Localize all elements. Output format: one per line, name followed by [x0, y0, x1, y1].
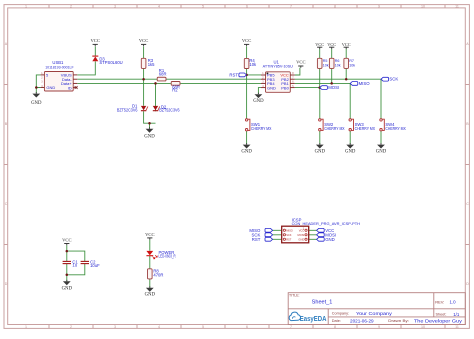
- svg-text:10k: 10k: [249, 62, 257, 67]
- svg-text:MISO: MISO: [286, 228, 293, 232]
- svg-text:10: 10: [421, 325, 425, 329]
- svg-text:10k: 10k: [323, 63, 329, 67]
- svg-text:VCC: VCC: [296, 60, 305, 65]
- svg-text:Drawn By:: Drawn By:: [388, 319, 409, 323]
- svg-text:GND: GND: [325, 237, 335, 242]
- svg-text:3: 3: [114, 325, 116, 329]
- svg-text:10k: 10k: [349, 63, 355, 67]
- svg-text:VCC: VCC: [242, 38, 251, 43]
- svg-text:68R: 68R: [159, 72, 167, 77]
- svg-text:D: D: [466, 282, 469, 286]
- svg-text:6: 6: [246, 325, 248, 329]
- svg-text:GND: GND: [144, 135, 155, 140]
- svg-text:MOSI: MOSI: [328, 85, 339, 90]
- svg-text:1: 1: [25, 325, 27, 329]
- svg-text:1/1: 1/1: [453, 312, 460, 317]
- svg-text:PB0: PB0: [281, 85, 289, 90]
- svg-text:10uF: 10uF: [90, 263, 100, 268]
- svg-text:STPS0L60U: STPS0L60U: [99, 60, 122, 65]
- svg-text:C: C: [5, 202, 8, 206]
- svg-text:MOSI: MOSI: [298, 233, 305, 237]
- svg-text:GND: GND: [241, 149, 252, 154]
- svg-text:VCC: VCC: [62, 238, 71, 243]
- svg-text:8: 8: [334, 4, 336, 8]
- svg-text:The Developer Guy: The Developer Guy: [414, 319, 463, 324]
- svg-text:9: 9: [378, 4, 380, 8]
- svg-text:VCC: VCC: [342, 42, 351, 47]
- svg-text:CON_HEADER_PRG_AVR_ICSP-PTH: CON_HEADER_PRG_AVR_ICSP-PTH: [292, 221, 360, 226]
- svg-text:2: 2: [70, 4, 72, 8]
- svg-text:3: 3: [114, 4, 116, 8]
- svg-text:D: D: [5, 282, 8, 286]
- svg-text:VCC: VCC: [145, 232, 154, 237]
- svg-text:Company:: Company:: [332, 311, 349, 315]
- svg-text:MISO: MISO: [359, 81, 371, 86]
- svg-text:RST: RST: [286, 237, 292, 241]
- svg-text:GND: GND: [345, 149, 356, 154]
- svg-text:1u: 1u: [72, 263, 77, 268]
- svg-text:10: 10: [421, 4, 425, 8]
- svg-text:470R: 470R: [153, 273, 163, 278]
- svg-text:4: 4: [158, 4, 160, 8]
- svg-text:Your Company: Your Company: [356, 311, 393, 316]
- svg-text:1.0: 1.0: [450, 299, 457, 304]
- svg-text:GND: GND: [315, 149, 326, 154]
- svg-text:VCC: VCC: [315, 42, 324, 47]
- svg-text:VCC: VCC: [90, 38, 99, 43]
- svg-text:VCC: VCC: [139, 38, 148, 43]
- svg-text:Date:: Date:: [332, 319, 341, 323]
- svg-text:GND: GND: [31, 101, 42, 106]
- svg-text:GND: GND: [253, 99, 264, 104]
- svg-text:TITLE:: TITLE:: [289, 293, 300, 297]
- svg-text:ATTINY85V-10SU: ATTINY85V-10SU: [263, 64, 293, 69]
- svg-text:VCC: VCC: [327, 42, 336, 47]
- svg-text:REV:: REV:: [435, 299, 444, 304]
- svg-text:10118193-0001LF: 10118193-0001LF: [45, 64, 74, 69]
- svg-text:CHERRY MX: CHERRY MX: [251, 126, 272, 131]
- svg-text:1k5: 1k5: [148, 62, 155, 67]
- svg-text:BZT52C3V6: BZT52C3V6: [117, 107, 138, 112]
- svg-text:6: 6: [246, 4, 248, 8]
- svg-text:GND: GND: [46, 85, 55, 90]
- svg-text:5: 5: [202, 4, 204, 8]
- svg-text:R2: R2: [172, 88, 178, 93]
- svg-text:Sheet:: Sheet:: [436, 313, 447, 317]
- svg-text:LED-0603_R: LED-0603_R: [159, 254, 176, 259]
- svg-text:4: 4: [158, 325, 160, 329]
- svg-text:CHERRY MX: CHERRY MX: [324, 126, 345, 131]
- svg-text:11: 11: [455, 4, 459, 8]
- svg-text:Sheet_1: Sheet_1: [312, 299, 333, 305]
- svg-text:GND: GND: [145, 293, 156, 298]
- svg-text:SCK: SCK: [286, 233, 292, 237]
- svg-text:8: 8: [334, 325, 336, 329]
- svg-text:EasyEDA: EasyEDA: [300, 316, 327, 323]
- svg-text:10k: 10k: [335, 63, 341, 67]
- svg-text:9: 9: [378, 325, 380, 329]
- svg-text:2: 2: [70, 325, 72, 329]
- svg-text:CHERRY MX: CHERRY MX: [385, 126, 406, 131]
- svg-text:C: C: [466, 202, 469, 206]
- svg-text:2021-06-29: 2021-06-29: [350, 318, 374, 323]
- svg-text:GND: GND: [376, 149, 387, 154]
- svg-text:SCK: SCK: [389, 77, 398, 82]
- svg-text:GND: GND: [298, 237, 304, 241]
- svg-text:ID: ID: [68, 85, 72, 90]
- svg-text:RST: RST: [229, 72, 238, 77]
- svg-text:CHERRY MX: CHERRY MX: [355, 126, 376, 131]
- svg-text:7: 7: [290, 325, 292, 329]
- svg-text:5: 5: [202, 325, 204, 329]
- svg-text:BZT52C3V6: BZT52C3V6: [159, 108, 180, 113]
- svg-text:1: 1: [25, 4, 27, 8]
- svg-text:7: 7: [290, 4, 292, 8]
- svg-text:RST: RST: [252, 237, 261, 242]
- svg-text:11: 11: [455, 325, 459, 329]
- svg-text:GND: GND: [267, 85, 276, 90]
- svg-text:GND: GND: [62, 286, 73, 291]
